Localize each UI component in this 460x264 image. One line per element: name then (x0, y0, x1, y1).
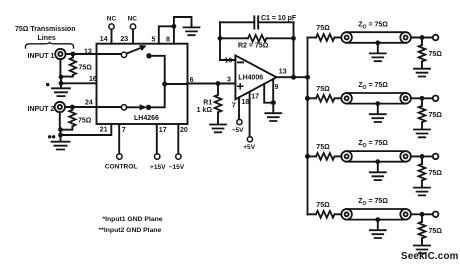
pin number 5 (152, 37, 156, 44)
pin number 21 (100, 127, 108, 134)
plus input mark (238, 84, 243, 89)
pin 20 -15V (177, 124, 179, 154)
pin 5 wire to gnd (159, 26, 174, 43)
coax line Z0=75Ω branch1 (341, 32, 411, 43)
svg-text:ZO = 75Ω: ZO = 75Ω (358, 140, 388, 149)
label +5V (243, 144, 256, 151)
ground input2 (**) (52, 142, 70, 150)
coax line Z0=75Ω branch3 (341, 151, 411, 162)
coax line Z0=75Ω branch4 (341, 209, 411, 220)
wire from connector down (59, 59, 61, 77)
ground pins 9/17 (265, 113, 281, 121)
svg-text:16: 16 (225, 58, 233, 65)
label NC pin14 (107, 16, 117, 23)
junction dot B (pin16 node) (59, 81, 64, 86)
value label 75Ω (78, 117, 92, 124)
label Z0 = 75Ω branch1 (358, 21, 388, 30)
junction dot fb right (291, 36, 296, 41)
wire: S2 out to common (149, 84, 165, 107)
svg-text:*Input1 GND Plane: *Input1 GND Plane (103, 216, 163, 223)
svg-text:**Input2 GND Plane: **Input2 GND Plane (99, 227, 162, 234)
value 75Ω branch3 (316, 144, 330, 151)
ground pins 5/8 (184, 27, 200, 35)
junction dot output/bus (305, 75, 310, 80)
feedback left vertical wire (219, 22, 221, 60)
svg-text:75Ω: 75Ω (429, 51, 443, 58)
minus input mark (238, 61, 243, 63)
pin 17 +15V (156, 124, 158, 154)
svg-text:−5V: −5V (232, 127, 245, 134)
note input1 gnd plane (103, 216, 163, 223)
svg-text:NC: NC (128, 16, 138, 23)
switch S2 output contact dot (146, 105, 151, 110)
pin 14 NC (111, 29, 113, 43)
switch S1 output contact dot (146, 53, 151, 58)
pin label 6 (190, 77, 194, 84)
resistor 75Ω input2 termination (71, 107, 73, 110)
svg-text:75Ω: 75Ω (316, 86, 330, 93)
pin label 16 (225, 58, 233, 65)
svg-text:+5V: +5V (243, 144, 256, 151)
output terminal branch3 (433, 154, 439, 160)
node branch1 tap (307, 37, 309, 39)
svg-text:13: 13 (84, 48, 92, 55)
ground coax shield branch2 (377, 104, 379, 114)
svg-text:ZO = 75Ω: ZO = 75Ω (358, 198, 388, 207)
resistor 75Ω input1 termination (72, 54, 74, 58)
label Z0 = 75Ω branch2 (358, 82, 388, 91)
pin number 20 (180, 127, 188, 134)
pin number 7 (122, 127, 126, 134)
resistor 75Ω series branch1 (308, 37, 317, 39)
label INPUT 1 (28, 53, 55, 60)
capacitor C1 10pF (220, 21, 294, 23)
switch S1 arm (open) (127, 45, 147, 54)
svg-text:17: 17 (159, 127, 167, 134)
pin 17 wire to gnd (264, 84, 273, 103)
label +15V (150, 164, 166, 171)
resistor 75Ω load branch4 (421, 214, 423, 222)
svg-text:Lines: Lines (38, 35, 56, 42)
value 75Ω branch2 (316, 86, 330, 93)
wire coax to output terminal branch2 (411, 97, 433, 99)
svg-text:LH4266: LH4266 (134, 115, 159, 122)
label CONTROL (105, 163, 138, 170)
pin label 24 (85, 99, 93, 106)
pin label 18 (241, 99, 249, 106)
value 75Ω load branch1 (429, 51, 443, 58)
pin label 7 (232, 103, 236, 110)
svg-text:75Ω: 75Ω (316, 25, 330, 32)
value 75Ω load branch3 (429, 170, 443, 177)
pin 9 wire to gnd (272, 79, 274, 103)
junction dot bus branch3 (305, 154, 310, 159)
svg-text:1 kΩ: 1 kΩ (197, 107, 213, 114)
label -5V (232, 127, 245, 134)
pin 18 +5V (249, 92, 251, 137)
svg-text:8: 8 (166, 37, 170, 44)
ground load branch3 (414, 188, 430, 196)
connector J1 (INPUT 1 BNC) (55, 49, 65, 59)
pin number 14 (100, 36, 108, 43)
value label 75Ω (79, 65, 93, 72)
resistor 75Ω load branch2 (421, 98, 423, 106)
svg-text:R2 = 75Ω: R2 = 75Ω (238, 43, 269, 50)
junction dot input2/R (70, 105, 75, 110)
resistor R2 75Ω feedback (220, 37, 248, 39)
junction dot output/fb (291, 75, 296, 80)
pin number 8 (166, 37, 170, 44)
IC U1 LH4266 box (97, 44, 188, 124)
pin 7 CONTROL (118, 124, 120, 154)
svg-text:3: 3 (227, 77, 231, 84)
svg-text:75Ω: 75Ω (79, 65, 93, 72)
svg-text:14: 14 (100, 36, 108, 43)
value 75Ω load branch4 (429, 228, 443, 235)
output terminal branch1 (433, 35, 439, 41)
pin label 16 (89, 76, 97, 83)
svg-text:SeekIC.com: SeekIC.com (401, 251, 459, 262)
pin label 17 (251, 94, 259, 101)
junction dot pins 5/8 (172, 24, 177, 29)
junction dot A (59, 75, 64, 80)
wire coax to output terminal branch1 (411, 37, 433, 39)
svg-text:75Ω: 75Ω (429, 112, 443, 119)
resistor 75Ω series branch4 (308, 213, 317, 215)
output terminal branch4 (433, 212, 439, 218)
op-amp label LH4006 (238, 74, 263, 81)
connector J2 (INPUT 2 BNC) (55, 102, 65, 112)
svg-text:7: 7 (122, 127, 126, 134)
svg-text:18: 18 (241, 99, 249, 106)
svg-text:INPUT 2: INPUT 2 (28, 106, 55, 113)
svg-text:75Ω: 75Ω (429, 228, 443, 235)
label Z0 = 75Ω branch4 (358, 198, 388, 207)
value 75Ω branch4 (316, 202, 330, 209)
wire: common to pin 6 (165, 83, 188, 85)
svg-text:21: 21 (100, 127, 108, 134)
wire: gnd node2 to pin 21 stub (61, 124, 112, 135)
ground load branch1 (414, 69, 430, 77)
ground coax shield branch1 (377, 43, 379, 53)
ground coax shield branch4 (377, 220, 379, 230)
svg-text:R1: R1 (203, 99, 212, 106)
resistor R1 1kΩ (217, 84, 219, 95)
svg-text:75Ω: 75Ω (316, 202, 330, 209)
svg-text:17: 17 (251, 94, 259, 101)
svg-text:C1 = 10 pF: C1 = 10 pF (261, 15, 297, 22)
wire coax to output terminal branch4 (411, 213, 433, 215)
switch S1 input contact (97, 53, 122, 55)
watermark (401, 251, 459, 262)
junction dot fb left (218, 36, 223, 41)
pin number 17 (159, 127, 167, 134)
label C1 = 10 pF (261, 15, 297, 22)
switch S2 input contact (97, 106, 122, 108)
label INPUT 2 (28, 106, 55, 113)
pin label 13 (84, 48, 92, 55)
svg-text:20: 20 (180, 127, 188, 134)
value 1 kΩ (197, 107, 213, 114)
junction dot C (58, 127, 63, 132)
junction dot 9/17 (271, 100, 276, 105)
note input2 gnd plane (99, 227, 162, 234)
svg-text:75Ω Transmission: 75Ω Transmission (15, 26, 75, 33)
ground coax shield branch3 (377, 162, 379, 172)
junction dot coax shield branch4 (375, 217, 380, 222)
node branch4 tap (307, 213, 309, 215)
svg-text:LH4006: LH4006 (238, 74, 263, 81)
wire: INPUT1 to pin 13 (66, 53, 97, 55)
feedback right vertical wire (293, 22, 295, 77)
pin 7 -5V (238, 98, 240, 120)
junction dot load branch3 (420, 154, 425, 159)
wire: output bus vertical (307, 38, 309, 215)
svg-text:+15V: +15V (150, 164, 166, 171)
pin label 3 (227, 77, 231, 84)
svg-text:7: 7 (232, 103, 236, 110)
output terminal branch2 (433, 96, 439, 102)
wire: INPUT2 to pin 24 (65, 106, 97, 108)
wire from connector 2 down (59, 112, 61, 130)
svg-text:−15V: −15V (169, 164, 185, 171)
wire coax to output terminal branch3 (411, 155, 433, 157)
coax line Z0=75Ω branch2 (341, 93, 411, 104)
switch S2 arm (closed) (127, 104, 147, 110)
svg-text:75Ω: 75Ω (429, 170, 443, 177)
junction dot input1/R (71, 52, 76, 57)
junction dot bus branch2 (305, 96, 310, 101)
pin label 13 (279, 69, 287, 76)
wire: pin 6 to op-amp + input (188, 83, 236, 85)
svg-text:ZO = 75Ω: ZO = 75Ω (358, 21, 388, 30)
junction dot load branch4 (420, 212, 425, 217)
pin number 23 (120, 36, 128, 43)
junction dot coax shield branch3 (375, 159, 380, 164)
wire: op-amp output (277, 76, 308, 78)
svg-text:6: 6 (190, 77, 194, 84)
brace under label (25, 43, 73, 49)
op-amp U2 LH4006 triangle (235, 55, 276, 99)
svg-text:ZO = 75Ω: ZO = 75Ω (358, 82, 388, 91)
label -15V (169, 164, 185, 171)
pin label 9 (275, 84, 279, 91)
footnote marker ** (48, 135, 51, 138)
label NC pin23 (128, 16, 138, 23)
svg-text:75Ω: 75Ω (316, 144, 330, 151)
ground load branch4 (414, 246, 430, 254)
pin 8 wire to gnd (174, 17, 192, 44)
IC label LH4266 (134, 115, 159, 122)
junction dot coax shield branch2 (375, 101, 380, 106)
ground R1 (210, 125, 226, 133)
pin 23 NC (132, 29, 134, 43)
svg-text:5: 5 (152, 37, 156, 44)
svg-text:23: 23 (120, 36, 128, 43)
label R2 = 75Ω (238, 43, 269, 50)
resistor 75Ω series branch3 (308, 155, 317, 157)
wire: feedback to - input (pin 16) (220, 59, 235, 61)
resistor 75Ω load branch1 (421, 38, 423, 46)
junction dot common pole (162, 82, 167, 87)
label Z0 = 75Ω branch3 (358, 140, 388, 149)
svg-text:NC: NC (107, 16, 117, 23)
svg-text:24: 24 (85, 99, 93, 106)
svg-text:9: 9 (275, 84, 279, 91)
ground load branch2 (414, 130, 430, 138)
svg-text:CONTROL: CONTROL (105, 163, 138, 170)
label: 75Ω Transmission Lines (15, 26, 75, 42)
footnote marker * (46, 83, 49, 86)
junction dot D (pin21 node) (58, 133, 63, 138)
svg-text:75Ω: 75Ω (78, 117, 92, 124)
label R1 (203, 99, 212, 106)
svg-text:13: 13 (279, 69, 287, 76)
resistor 75Ω series branch2 (308, 97, 317, 99)
junction dot load branch2 (420, 96, 425, 101)
wire: gnd node to pin 16 (61, 82, 97, 84)
resistor 75Ω load branch3 (421, 156, 423, 164)
junction dot R1 (216, 81, 221, 86)
value 75Ω branch1 (316, 25, 330, 32)
junction dot coax shield branch1 (375, 40, 380, 45)
value 75Ω load branch2 (429, 112, 443, 119)
ground input1 (*) (52, 88, 70, 96)
svg-text:INPUT 1: INPUT 1 (28, 53, 55, 60)
junction dot load branch1 (420, 35, 425, 40)
wire: S1 out to common (149, 56, 165, 84)
